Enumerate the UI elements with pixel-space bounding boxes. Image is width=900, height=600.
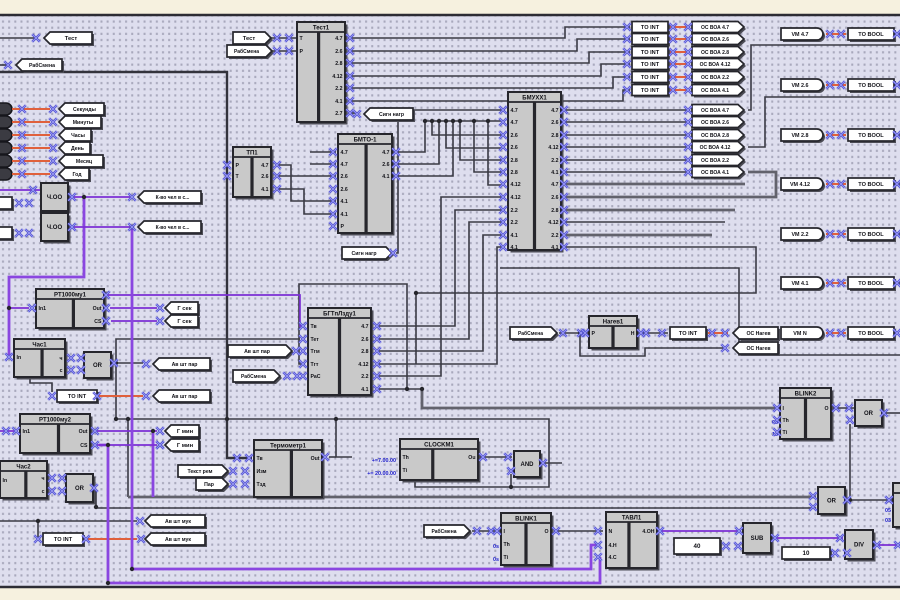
tag Г сек 1 xyxy=(165,302,200,316)
svg-text:SUB: SUB xyxy=(751,536,764,542)
wire to tag РабСмена xyxy=(0,64,10,66)
svg-text:4.7: 4.7 xyxy=(511,108,518,114)
svg-text:TO INT: TO INT xyxy=(641,88,660,94)
block ТП1 xyxy=(233,147,274,200)
block BLINK2 xyxy=(780,388,834,442)
wire drop to in3 xyxy=(432,121,505,135)
wire purple SUB out to DIV xyxy=(773,537,843,539)
svg-text:TO BOOL: TO BOOL xyxy=(858,133,884,139)
X markers TO INT col right xyxy=(669,23,677,94)
wire bus left-edge to Термометр Тв xyxy=(0,72,252,458)
wire Тест1 out5 to TO_INT5 xyxy=(348,77,630,88)
converter TO INT 2 xyxy=(43,533,85,547)
wire feedback loop xyxy=(299,284,407,389)
svg-text:БМТО-1: БМТО-1 xyxy=(354,138,377,144)
svg-text:Часы: Часы xyxy=(71,133,85,139)
wire orange VM row6 xyxy=(826,282,846,284)
value BLINK1 Ti xyxy=(493,557,499,563)
wire ТП1 out3 to БМТО in6 xyxy=(276,189,336,214)
svg-text:4.1: 4.1 xyxy=(341,199,348,205)
svg-text:4.1: 4.1 xyxy=(511,233,518,239)
tag ОС ВОА 2.2 col1 xyxy=(692,72,746,85)
wire purple ТАВЛ out to SUB xyxy=(658,530,741,532)
svg-text:2.6: 2.6 xyxy=(361,337,368,343)
wire БМУХХ1 out3 to flag xyxy=(561,134,690,136)
X markers flag col1 xyxy=(684,23,692,94)
wire mid loop to right edge xyxy=(500,268,900,355)
wire orange TO_INT6 to flag xyxy=(670,89,690,91)
X markers TO INT box1 xyxy=(48,392,150,400)
X markers OR4 xyxy=(809,492,893,511)
svg-text:Год: Год xyxy=(72,172,82,178)
block Ч.ОО1 xyxy=(41,183,71,214)
wire drop to thick bus xyxy=(127,419,129,497)
block SUB xyxy=(743,523,774,556)
svg-text:БМУХХ1: БМУХХ1 xyxy=(522,96,547,102)
svg-text:Час1: Час1 xyxy=(32,343,47,349)
svg-text:0s: 0s xyxy=(493,544,499,550)
wire OR1 down to y419 bus xyxy=(115,363,117,419)
svg-text:ОС Нагев: ОС Нагев xyxy=(746,346,770,352)
svg-text:TO BOOL: TO BOOL xyxy=(858,232,884,238)
X markers Ч.ОО xyxy=(15,186,136,237)
svg-text:4.7: 4.7 xyxy=(551,182,558,188)
wire БМУХХ1 out6 to flag xyxy=(561,171,690,173)
svg-text:Ч.ОО: Ч.ОО xyxy=(47,225,63,231)
svg-text:10: 10 xyxy=(803,550,810,557)
tag Г мин 2 xyxy=(165,439,201,453)
svg-text:4.1: 4.1 xyxy=(361,387,368,393)
svg-text:Тв: Тв xyxy=(311,324,317,330)
tag Г мин 1 xyxy=(165,425,201,439)
svg-text:N: N xyxy=(609,529,613,535)
block Ч.ОО2 xyxy=(41,213,71,244)
tag ОС ВОА 4.1 col2 xyxy=(692,167,746,180)
block OR3 xyxy=(855,400,885,429)
svg-text:2.7: 2.7 xyxy=(335,111,342,117)
svg-text:VМ 4.1: VМ 4.1 xyxy=(791,281,808,287)
svg-text:К-во чел в с...: К-во чел в с... xyxy=(156,225,190,231)
wire purple vert x153 xyxy=(152,431,155,497)
svg-text:VМ N: VМ N xyxy=(793,331,807,337)
wire drop to in6 xyxy=(474,121,505,172)
wire OR4 out xyxy=(847,499,893,501)
converter TO BOOL row4 xyxy=(848,178,896,192)
wire orange TO_INT4 to flag xyxy=(670,63,690,65)
tag ОС ВОА 4.12 col2 xyxy=(692,142,746,155)
X markers TO INT box2 xyxy=(34,517,145,543)
svg-text:VМ 2.2: VМ 2.2 xyxy=(791,232,808,238)
value BLINK2 Ti xyxy=(772,432,778,438)
block РТ1000му1 xyxy=(36,289,107,331)
tag РабСмена (BLINK1) xyxy=(424,525,472,539)
wire OR1 out xyxy=(111,362,143,364)
wire orange VM row7 xyxy=(826,332,846,334)
converter TO BOOL row6 xyxy=(848,277,896,291)
wire РабСмена tag to Тест1.Р xyxy=(271,50,297,52)
svg-text:ОС ВОА 2.8: ОС ВОА 2.8 xyxy=(701,50,729,56)
svg-text:4.1: 4.1 xyxy=(382,174,389,180)
wire orange dark tag row1 xyxy=(12,108,50,110)
X marker flag Сигн нагр1 xyxy=(353,110,361,118)
wire purple РТ1 In xyxy=(9,307,29,309)
wire РабСмена to BLINK1 xyxy=(472,530,501,532)
tag ОС ВОА 4.1 col1 xyxy=(692,85,746,98)
svg-text:OR: OR xyxy=(93,363,103,369)
svg-text:OR: OR xyxy=(75,486,85,492)
block ТАВЛ1 xyxy=(606,512,660,571)
value CLOCK Th xyxy=(372,458,396,464)
svg-text:TO INT: TO INT xyxy=(68,394,87,400)
svg-text:2.8: 2.8 xyxy=(551,208,558,214)
wire staircase2 right edge xyxy=(748,97,900,147)
svg-text:4.12: 4.12 xyxy=(548,145,558,151)
wire BLINK2 out to OR3 xyxy=(833,407,856,409)
X markers БГТ left xyxy=(299,322,307,380)
X markers dark tag rows xyxy=(18,105,57,178)
svg-text:РабСмена: РабСмена xyxy=(518,330,543,337)
converter TO INT col5 xyxy=(632,72,670,85)
svg-text:DIV: DIV xyxy=(854,543,864,549)
block OR1 xyxy=(84,352,114,381)
converter TO BOOL row3 xyxy=(848,129,896,143)
tag Год xyxy=(59,168,91,182)
svg-text:2.2: 2.2 xyxy=(335,86,342,92)
tag VМ 4.7 xyxy=(781,28,825,42)
X markers ТАВЛ1 xyxy=(594,527,664,561)
converter TO INT col3 xyxy=(632,47,670,60)
wire Тест1 out1 to TO_INT1 xyxy=(348,27,630,38)
tag ОС ВОА 4.12 col1 xyxy=(692,59,746,72)
wire OR3 out right edge xyxy=(884,412,900,414)
svg-text:РабСмена: РабСмена xyxy=(431,528,456,535)
svg-text:TO INT: TO INT xyxy=(641,25,660,31)
svg-text:ОС ВОА 4.7: ОС ВОА 4.7 xyxy=(701,25,729,31)
svg-text:Термометр1: Термометр1 xyxy=(270,444,307,450)
svg-text:4.12: 4.12 xyxy=(548,220,558,226)
svg-text:Тест1: Тест1 xyxy=(313,26,330,32)
wire Тест1 out2 to TO_INT2 xyxy=(348,39,630,51)
svg-text:TO INT: TO INT xyxy=(641,62,660,68)
tag К-во чел 2 xyxy=(138,221,203,235)
X markers flag col2 xyxy=(684,106,692,176)
svg-text:TO INT: TO INT xyxy=(641,50,660,56)
svg-text:Тет: Тет xyxy=(311,337,320,343)
svg-text:2.8: 2.8 xyxy=(361,349,368,355)
svg-text:К-во чел в с...: К-во чел в с... xyxy=(156,195,190,201)
svg-text:2.6: 2.6 xyxy=(511,145,518,151)
svg-text:ОС ВОА 4.7: ОС ВОА 4.7 xyxy=(701,108,729,114)
tag Ав шт мук 1 xyxy=(145,515,207,529)
wire orange TO_INT5 to flag xyxy=(670,76,690,78)
wire БМУХХ1 out5 to flag xyxy=(561,159,690,161)
svg-text:4.12: 4.12 xyxy=(332,74,342,80)
wire drop to in4 xyxy=(446,121,505,148)
tag VМ 4.1 xyxy=(781,277,825,291)
wire purple vert x132 xyxy=(131,227,134,569)
block DIV xyxy=(845,530,876,562)
wire orange TO_INT box1 out xyxy=(99,395,143,397)
svg-text:4.12: 4.12 xyxy=(358,362,368,368)
svg-text:Out: Out xyxy=(79,429,88,435)
X markers БМТО right xyxy=(392,148,400,180)
wire orange VM row4 xyxy=(826,183,846,185)
svg-text:День: День xyxy=(71,146,84,152)
tag ОС ВОА 2.8 col2 xyxy=(692,130,746,143)
wire Тест1 out4 to TO_INT4 xyxy=(348,64,630,76)
wire orange VM row1 xyxy=(826,33,846,35)
svg-text:4.1: 4.1 xyxy=(261,187,268,193)
value BLINK1 Th xyxy=(493,544,499,550)
svg-text:ч: ч xyxy=(41,476,44,482)
X markers VM rows xyxy=(826,30,900,337)
tag Часы xyxy=(59,129,93,143)
wire purple РТ2 Out xyxy=(97,430,157,432)
svg-text:4.Н: 4.Н xyxy=(609,543,617,549)
X markers BLINK2/OR3 xyxy=(773,404,888,436)
svg-text:ОС ВОА 2.6: ОС ВОА 2.6 xyxy=(701,120,729,126)
wire VM row2 right edge xyxy=(895,84,900,86)
svg-text:2.2: 2.2 xyxy=(551,158,558,164)
wire Термометр out to CLOCK riser xyxy=(329,456,336,458)
wire РабСмена to Нагрев.Р xyxy=(559,332,589,334)
svg-text:Г сек: Г сек xyxy=(177,306,191,312)
svg-text:4.7: 4.7 xyxy=(361,324,368,330)
wire orange TO_INT2 to flag xyxy=(670,38,690,40)
svg-text:Ав шт пар: Ав шт пар xyxy=(172,394,198,400)
dark tag row1 xyxy=(0,103,12,115)
svg-text:TO INT: TO INT xyxy=(641,75,660,81)
svg-text:Ou: Ou xyxy=(468,455,475,461)
svg-text:Сигн нагр: Сигн нагр xyxy=(379,112,404,118)
tag VМ 4.12 xyxy=(781,178,825,192)
svg-text:40: 40 xyxy=(694,543,701,550)
svg-text:+=7.00.00: +=7.00.00 xyxy=(372,458,396,464)
svg-text:4.1: 4.1 xyxy=(551,245,558,251)
svg-text:ОС ВОА 4.1: ОС ВОА 4.1 xyxy=(701,88,729,94)
X markers SUB/DIV xyxy=(722,527,900,557)
wire purple Out riser xyxy=(104,295,106,305)
svg-text:Минуты: Минуты xyxy=(73,120,94,126)
wire БГТ out6 xyxy=(379,388,422,390)
wire y419 bus to AND in2 xyxy=(116,419,549,487)
X markers Термометр xyxy=(229,453,329,488)
wire purple bottom bus2 xyxy=(108,557,600,583)
converter TO BOOL row1 xyxy=(848,28,896,42)
svg-text:O: O xyxy=(544,529,548,535)
svg-text:O: O xyxy=(824,406,828,412)
tag ОС ВОА 4.7 col1 xyxy=(692,22,746,35)
tag Секунды xyxy=(59,103,106,117)
wire staircase3 to БМУХХ1 in8 xyxy=(561,172,776,197)
svg-text:Тгт: Тгт xyxy=(311,362,319,368)
svg-text:4.1: 4.1 xyxy=(511,245,518,251)
svg-text:Ti: Ti xyxy=(504,555,509,561)
svg-text:РТ1000му1: РТ1000му1 xyxy=(54,293,87,299)
converter TO BOOL row7 xyxy=(848,327,896,341)
svg-text:VМ 4.7: VМ 4.7 xyxy=(791,32,808,38)
svg-text:Ав шт мук: Ав шт мук xyxy=(165,519,191,525)
wire Тест1 out7 to flag Сигн xyxy=(348,112,358,114)
wire drop to in7 xyxy=(488,121,505,185)
wire БГТ out2 to in10 xyxy=(379,222,505,339)
block Нагрев1 xyxy=(589,316,640,351)
svg-text:In: In xyxy=(17,355,22,361)
svg-text:Тзд: Тзд xyxy=(257,482,267,488)
svg-text:TO BOOL: TO BOOL xyxy=(858,331,884,337)
block OR4 xyxy=(818,487,848,517)
wire drop to in5 xyxy=(460,121,505,160)
tag Г сек 2 xyxy=(165,315,200,329)
svg-text:4.7: 4.7 xyxy=(261,163,268,169)
converter TO INT 1 xyxy=(57,390,99,404)
tag ОС ВОА 2.8 col1 xyxy=(692,47,746,60)
svg-text:4.12: 4.12 xyxy=(511,195,521,201)
tag ОС ВОА 2.2 col2 xyxy=(692,155,746,168)
wire BLINK1 to ТАВЛ1.N xyxy=(554,530,603,532)
svg-text:CS: CS xyxy=(94,319,102,325)
wire purple CS down xyxy=(99,445,108,583)
wire orange VM row5 xyxy=(826,233,846,235)
tag VМ N xyxy=(781,327,825,341)
X markers БГТ right xyxy=(373,322,381,393)
svg-text:Н: Н xyxy=(631,331,635,337)
block AND xyxy=(514,451,543,480)
svg-text:4.7: 4.7 xyxy=(511,120,518,126)
svg-text:2.6: 2.6 xyxy=(341,174,348,180)
wire БМУХХ1 out11 xyxy=(561,234,712,237)
tag input Ч.ОО2 (clipped) xyxy=(0,227,14,241)
svg-text:Г мин: Г мин xyxy=(177,443,194,449)
X markers БМТО left xyxy=(329,148,337,230)
wire orange TO_INT box2 out xyxy=(88,538,137,540)
tag VМ 2.2 xyxy=(781,228,825,242)
constant 40 xyxy=(674,538,722,556)
wire БМУХХ1 out1 to flag xyxy=(561,109,690,111)
svg-text:ОС ВОА 4.12: ОС ВОА 4.12 xyxy=(700,62,731,68)
svg-text:РабСмена: РабСмена xyxy=(29,62,55,69)
X markers CLOCK/AND xyxy=(479,453,547,475)
svg-text:Тест: Тест xyxy=(65,36,78,42)
wire bus branch to CLOCK Th xyxy=(336,419,352,457)
tag VМ 2.6 xyxy=(781,79,825,93)
X markers Тест1 outputs xyxy=(346,34,354,117)
block БГТпЛзду1 xyxy=(308,308,374,398)
wire orange TO_INT1 to flag xyxy=(670,26,690,28)
svg-text:2.6: 2.6 xyxy=(335,49,342,55)
svg-text:TO BOOL: TO BOOL xyxy=(858,182,884,188)
wire orange dark tag row6 xyxy=(12,173,50,175)
svg-text:ОС ВОА 4.1: ОС ВОА 4.1 xyxy=(701,170,729,176)
svg-text:TO BOOL: TO BOOL xyxy=(858,32,884,38)
wire orange VM row2 xyxy=(826,84,846,86)
tag К-во чел 1 xyxy=(138,191,203,205)
X markers БМУХХ1 right xyxy=(560,106,568,251)
tag ОС ВОА 4.7 col2 xyxy=(692,105,746,118)
wire purple Ч.ОО2 out xyxy=(70,226,130,228)
svg-text:OR: OR xyxy=(864,411,874,417)
X marker flag Сигн нагр2 xyxy=(389,249,397,257)
wire БМУХХ1 out9 xyxy=(561,209,735,212)
wire Нагрев out xyxy=(638,332,668,334)
svg-text:Ti: Ti xyxy=(403,468,408,474)
svg-text:Тв: Тв xyxy=(257,456,263,462)
value CLOCK Ti xyxy=(367,471,396,477)
svg-text:РабСмена: РабСмена xyxy=(241,373,266,380)
svg-text:Out: Out xyxy=(93,306,102,312)
svg-text:In1: In1 xyxy=(39,306,47,312)
wire bus y121 to БМУХХ1 in2 xyxy=(425,120,505,122)
svg-text:4.ОН: 4.ОН xyxy=(642,529,654,535)
wire left edge to flag мук1 xyxy=(0,520,137,522)
svg-text:4.12: 4.12 xyxy=(511,182,521,188)
svg-text:ОС Нагев: ОС Нагев xyxy=(746,331,770,337)
svg-text:2.6: 2.6 xyxy=(551,120,558,126)
wire purple bottom bus1 xyxy=(132,545,599,569)
svg-text:с: с xyxy=(60,368,63,374)
wire БГТ out1 to in9 xyxy=(379,210,505,326)
wire purple Ч.ОО1 to Час1 and РТ1 xyxy=(9,197,84,355)
block OR2 xyxy=(66,474,96,505)
block РТ1000му2 xyxy=(20,414,93,456)
wire Тест tag to Тест1.Т xyxy=(271,37,297,39)
svg-text:ОС ВОА 4.12: ОС ВОА 4.12 xyxy=(700,145,731,151)
svg-text:03: 03 xyxy=(885,518,891,524)
wire thick bus y497 to OR4 xyxy=(128,496,816,499)
value ТВ pin1 xyxy=(885,508,891,514)
wire БМУХХ1 out10 xyxy=(561,221,725,223)
svg-text:4.С: 4.С xyxy=(609,555,617,561)
wire БМТО out1 up xyxy=(394,121,425,152)
svg-text:Th: Th xyxy=(504,542,510,548)
tag Сигн нагр 2 xyxy=(342,247,394,261)
svg-text:4.1: 4.1 xyxy=(551,170,558,176)
wire VM row4 right edge xyxy=(895,183,900,185)
top border xyxy=(0,14,900,16)
svg-text:Нагев1: Нагев1 xyxy=(603,320,624,326)
block Час1 xyxy=(14,339,68,380)
svg-text:ТП1: ТП1 xyxy=(246,151,258,157)
wire OR1 to БГТ Тет xyxy=(116,339,300,363)
dark tag row3 xyxy=(0,129,12,141)
svg-text:VМ 4.12: VМ 4.12 xyxy=(790,182,810,188)
svg-text:Ав шт пар: Ав шт пар xyxy=(244,349,270,355)
wire БМТО out2 up xyxy=(394,121,439,164)
constant 10 xyxy=(782,547,832,561)
wire БМТО in2 stub xyxy=(310,163,336,165)
tag РабСмена (Нагрев) xyxy=(510,327,559,341)
wire Тест1 out3 to TO_INT3 xyxy=(348,52,630,63)
wire purple РТ1 CS to flag xyxy=(111,320,157,322)
X markers BLINK1 xyxy=(473,527,602,535)
svg-text:Р: Р xyxy=(592,331,596,337)
block Термометр1 xyxy=(254,440,325,500)
svg-text:2.6: 2.6 xyxy=(551,195,558,201)
tag РабСмена (Тест1) xyxy=(227,45,274,59)
svg-text:BLINK2: BLINK2 xyxy=(795,392,817,398)
svg-text:VМ 2.6: VМ 2.6 xyxy=(791,83,808,89)
wire CLOCK out to AND xyxy=(480,456,512,458)
svg-text:TO BOOL: TO BOOL xyxy=(858,281,884,287)
wire S4 tail xyxy=(415,293,417,364)
svg-text:4.1: 4.1 xyxy=(341,212,348,218)
wire БМУХХ1 out7 xyxy=(561,183,745,186)
svg-text:2.8: 2.8 xyxy=(511,170,518,176)
svg-text:VМ 2.8: VМ 2.8 xyxy=(791,133,808,139)
svg-text:Ав шт мук: Ав шт мук xyxy=(165,537,191,543)
svg-text:2.2: 2.2 xyxy=(511,220,518,226)
wire ТП1 out1 to БМТО in5 xyxy=(276,165,336,201)
